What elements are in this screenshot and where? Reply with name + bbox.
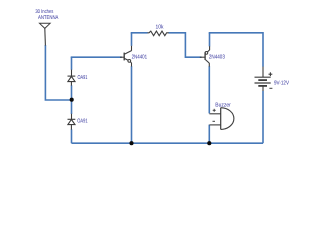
junction: Q1 emitter on bottom rail <box>129 141 133 145</box>
wire: buzzer minus down to rail <box>208 125 210 144</box>
wire: Q1 collector riser <box>131 33 133 46</box>
wire: Q1 base horizontal <box>71 56 122 58</box>
plus mark (battery) <box>269 73 273 75</box>
svg-text:30 Inches: 30 Inches <box>35 9 53 15</box>
svg-text:2N4401: 2N4401 <box>132 55 148 61</box>
diode D1 OA91 <box>68 70 76 86</box>
svg-text:2N4403: 2N4403 <box>209 55 225 61</box>
plus mark (buzzer) <box>213 109 216 111</box>
junction: antenna/diodes node <box>70 98 74 102</box>
minus mark (battery) <box>269 87 272 89</box>
resistor R1 10k <box>148 31 169 36</box>
transistor Q1 2N4401 <box>120 46 132 67</box>
svg-text:OA91: OA91 <box>78 75 88 81</box>
wire: bottom rail <box>72 142 264 144</box>
wire: diode column top segment <box>71 57 73 70</box>
wire: Q1 emitter drop <box>131 66 133 143</box>
svg-text:OA91: OA91 <box>77 118 87 124</box>
svg-text:10k: 10k <box>156 24 164 31</box>
wire: between diodes <box>71 85 73 114</box>
buzzer BZ1 <box>209 108 234 130</box>
transistor Q2 2N4403 <box>200 46 210 66</box>
antenna ANT1 <box>40 23 51 45</box>
diode D2 OA91 <box>68 114 76 130</box>
wire: Q2 emitter riser <box>209 33 211 47</box>
wire: battery bottom to rail <box>262 91 264 143</box>
junction: buzzer minus on bottom rail <box>207 141 211 145</box>
svg-text:9V-12V: 9V-12V <box>274 80 289 86</box>
battery BT1 9V-12V <box>255 67 273 91</box>
svg-text:ANTENNA: ANTENNA <box>38 15 59 21</box>
wire: Q2 collector down to buzzer plus <box>208 66 210 113</box>
wire: top rail right to battery drop <box>209 33 263 67</box>
wire: resistor to jog corner, down, over to Q2 base <box>169 33 202 57</box>
svg-text:Buzzer: Buzzer <box>215 103 231 109</box>
wire: top rail left of resistor <box>131 32 148 34</box>
wire: antenna stem down and over to diode junction <box>45 45 71 100</box>
minus mark (buzzer) <box>213 120 216 122</box>
wire: below lower diode <box>71 129 73 143</box>
